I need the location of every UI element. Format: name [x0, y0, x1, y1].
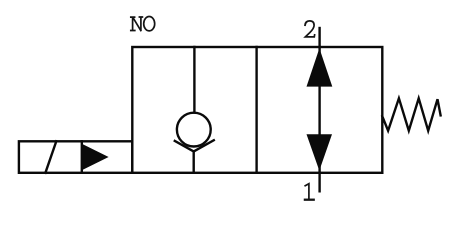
solenoid armature divider — [81, 141, 83, 173]
spring — [382, 98, 440, 130]
label NO letter O — [144, 17, 155, 31]
check valve seat right — [194, 140, 214, 151]
check valve flow line — [193, 47, 195, 113]
label NO letter N — [131, 17, 143, 31]
solenoid box — [19, 141, 132, 173]
check valve outlet line — [192, 152, 194, 173]
port label 2 — [305, 21, 315, 37]
port 2 stub — [318, 28, 320, 47]
flow path line with arrows — [318, 47, 320, 173]
down arrow (flow 2 to 1) — [307, 134, 333, 170]
port label 1 — [305, 184, 309, 200]
up arrow (flow 1 to 2) — [307, 48, 333, 86]
valve body outline — [132, 47, 382, 173]
check valve seat left — [175, 141, 194, 152]
solenoid arrow — [82, 144, 109, 170]
position divider — [255, 47, 257, 173]
solenoid diagonal — [45, 141, 56, 173]
check valve ball — [177, 113, 211, 147]
port 1 stub — [318, 173, 320, 192]
